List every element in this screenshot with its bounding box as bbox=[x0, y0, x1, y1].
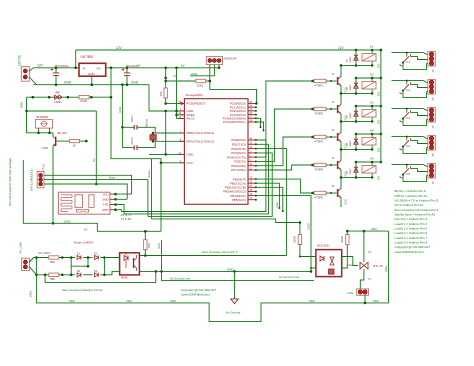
svg-text:12V: 12V bbox=[116, 46, 123, 50]
svg-text:Ac Ground Line: Ac Ground Line bbox=[170, 276, 190, 280]
svg-text:22PF2: 22PF2 bbox=[131, 137, 134, 145]
svg-text:12V: 12V bbox=[377, 147, 380, 152]
svg-text:GND: GND bbox=[187, 153, 195, 157]
svg-text:Ac Ground Line: Ac Ground Line bbox=[279, 275, 299, 279]
svg-text:GND: GND bbox=[157, 243, 161, 249]
svg-text:10K: 10K bbox=[159, 91, 163, 96]
svg-text:Load5 5 = Arduino Pin 8: Load5 5 = Arduino Pin 8 bbox=[395, 240, 428, 244]
svg-text:Reset: Reset bbox=[147, 170, 151, 178]
svg-text:K1: K1 bbox=[407, 60, 411, 64]
svg-text:RXD: RXD bbox=[103, 208, 109, 212]
svg-text:Zero Crossing Detector Circuit: Zero Crossing Detector Circuit bbox=[62, 288, 103, 292]
svg-text:VCC: VCC bbox=[187, 161, 194, 165]
svg-text:VI: VI bbox=[83, 66, 86, 70]
svg-text:DHT11 = Arduino Pin 10: DHT11 = Arduino Pin 10 bbox=[395, 194, 428, 198]
svg-text:J6: J6 bbox=[431, 181, 435, 184]
svg-text:Load2 2 = Arduino Pin 5: Load2 2 = Arduino Pin 5 bbox=[395, 226, 428, 230]
svg-text:180R: 180R bbox=[292, 236, 296, 243]
svg-text:10K1: 10K1 bbox=[197, 83, 204, 87]
svg-text:5V: 5V bbox=[84, 227, 88, 231]
svg-text:Copyright @ GO-3DFi iDT: Copyright @ GO-3DFi iDT bbox=[395, 245, 431, 249]
svg-text:12V: 12V bbox=[377, 119, 380, 124]
svg-text:J2: J2 bbox=[431, 69, 435, 72]
svg-text:Data: Data bbox=[109, 176, 115, 180]
svg-text:Stanby Input = Arduino Pin A0: Stanby Input = Arduino Pin A0 bbox=[395, 213, 436, 217]
svg-text:J4: J4 bbox=[431, 125, 435, 128]
svg-text:GND: GND bbox=[227, 267, 233, 271]
svg-text:470R: 470R bbox=[80, 99, 87, 103]
svg-text:J3: J3 bbox=[431, 97, 435, 100]
svg-text:56K: 56K bbox=[50, 277, 55, 281]
svg-text:12V: 12V bbox=[377, 91, 380, 96]
svg-text:12V: 12V bbox=[338, 46, 345, 50]
svg-text:AC 230V: AC 230V bbox=[38, 251, 51, 255]
svg-text:230v: 230v bbox=[69, 299, 76, 303]
svg-text:470R5: 470R5 bbox=[315, 195, 324, 199]
svg-text:Atmega328p: Atmega328p bbox=[186, 93, 203, 97]
svg-text:Data: Data bbox=[276, 202, 279, 208]
svg-text:LED1: LED1 bbox=[55, 100, 63, 104]
svg-text:J5: J5 bbox=[431, 153, 435, 156]
svg-text:LM 7805: LM 7805 bbox=[81, 55, 94, 59]
svg-text:RX to Arduino Pin 12: RX to Arduino Pin 12 bbox=[395, 203, 424, 207]
svg-text:230v: 230v bbox=[126, 299, 133, 303]
svg-text:GND: GND bbox=[20, 102, 24, 108]
svg-text:1N4007: 1N4007 bbox=[350, 140, 352, 147]
svg-text:PB5(SCK): PB5(SCK) bbox=[232, 198, 246, 202]
svg-text:230v: 230v bbox=[384, 265, 388, 272]
svg-text:TX to RX: TX to RX bbox=[121, 217, 132, 221]
svg-text:5V: 5V bbox=[174, 74, 178, 78]
svg-text:GND: GND bbox=[64, 220, 70, 224]
svg-text:www.GSMFabrik.com: www.GSMFabrik.com bbox=[181, 292, 210, 296]
svg-text:1N4007: 1N4007 bbox=[350, 84, 352, 91]
svg-text:K5: K5 bbox=[407, 172, 411, 176]
svg-text:470R3: 470R3 bbox=[315, 139, 324, 143]
svg-text:AVCC: AVCC bbox=[187, 117, 196, 121]
svg-text:K4: K4 bbox=[407, 144, 411, 148]
svg-text:www.GSMFabrik.com: www.GSMFabrik.com bbox=[395, 250, 425, 254]
svg-text:BUZZER: BUZZER bbox=[37, 115, 49, 119]
svg-text:230v: 230v bbox=[170, 299, 177, 303]
svg-text:PB7(XTAL2/TOSC2): PB7(XTAL2/TOSC2) bbox=[187, 140, 215, 144]
svg-text:Load1 1 = Arduino Pin 4: Load1 1 = Arduino Pin 4 bbox=[395, 222, 428, 226]
svg-text:5V: 5V bbox=[181, 64, 185, 68]
svg-text:470R1: 470R1 bbox=[315, 83, 324, 87]
svg-text:GND: GND bbox=[118, 107, 122, 113]
svg-text:Buzzer = Arduino Pin 9: Buzzer = Arduino Pin 9 bbox=[395, 189, 426, 193]
svg-text:SENSOR: SENSOR bbox=[224, 56, 238, 60]
svg-text:PC6(/RESET): PC6(/RESET) bbox=[187, 102, 206, 106]
svg-text:GND: GND bbox=[307, 223, 311, 229]
svg-text:GND: GND bbox=[64, 81, 72, 85]
svg-text:K3: K3 bbox=[370, 101, 374, 105]
svg-text:VCC: VCC bbox=[103, 192, 109, 196]
svg-text:DHT11 MODULE: DHT11 MODULE bbox=[30, 169, 34, 191]
svg-text:22PF1: 22PF1 bbox=[131, 114, 134, 122]
svg-text:1N4007: 1N4007 bbox=[350, 168, 352, 175]
svg-text:TXD: TXD bbox=[103, 203, 109, 207]
svg-text:1N4007: 1N4007 bbox=[350, 112, 352, 119]
svg-text:HC-05/06 = TX to Arduino Pin 1: HC-05/06 = TX to Arduino Pin 11 bbox=[395, 199, 439, 203]
svg-text:Diode 1N4007: Diode 1N4007 bbox=[74, 240, 94, 244]
svg-text:Fan Out = Arduino Pin 3: Fan Out = Arduino Pin 3 bbox=[395, 217, 428, 221]
svg-text:GND: GND bbox=[344, 199, 347, 205]
svg-text:GND: GND bbox=[131, 81, 139, 85]
svg-text:12V: 12V bbox=[377, 63, 380, 68]
svg-text:BC 547: BC 547 bbox=[58, 131, 68, 135]
svg-text:GND: GND bbox=[42, 146, 48, 150]
svg-text:12V DC: 12V DC bbox=[18, 54, 22, 66]
svg-text:56K: 56K bbox=[50, 260, 55, 264]
svg-text:230v: 230v bbox=[28, 290, 32, 297]
svg-text:4N25: 4N25 bbox=[121, 276, 128, 280]
svg-text:GND: GND bbox=[191, 72, 197, 76]
svg-text:1K: 1K bbox=[73, 144, 77, 148]
svg-text:K5: K5 bbox=[370, 157, 374, 161]
svg-text:12V: 12V bbox=[37, 64, 44, 68]
svg-text:Load3 3 = Arduino Pin 6: Load3 3 = Arduino Pin 6 bbox=[395, 231, 428, 235]
svg-text:Ac Ground: Ac Ground bbox=[226, 311, 241, 315]
svg-text:MOC3021: MOC3021 bbox=[317, 244, 330, 248]
svg-text:470R2: 470R2 bbox=[315, 111, 324, 115]
svg-text:10K: 10K bbox=[147, 243, 151, 248]
svg-text:FAN: FAN bbox=[348, 291, 354, 295]
svg-text:GND: GND bbox=[88, 72, 94, 76]
svg-text:K2: K2 bbox=[370, 73, 374, 77]
svg-text:Dot-matrix-watchE mAX (high Vo: Dot-matrix-watchE mAX (high Voltage) bbox=[8, 158, 12, 206]
svg-text:AC_LINE: AC_LINE bbox=[18, 242, 22, 254]
svg-text:K3: K3 bbox=[407, 116, 411, 120]
svg-text:230v: 230v bbox=[371, 227, 378, 231]
svg-text:K4: K4 bbox=[370, 129, 374, 133]
svg-text:230v: 230v bbox=[373, 299, 380, 303]
svg-text:Copyright @ GO-3DFi iDT: Copyright @ GO-3DFi iDT bbox=[181, 288, 216, 292]
svg-text:Zero Crossing Out to Pin 2: Zero Crossing Out to Pin 2 bbox=[202, 250, 238, 254]
svg-text:Load4 4 = Arduino Pin 7: Load4 4 = Arduino Pin 7 bbox=[395, 236, 428, 240]
svg-text:16MHz2: 16MHz2 bbox=[146, 118, 149, 128]
svg-text:1N4007: 1N4007 bbox=[350, 56, 352, 63]
svg-text:Gate: Gate bbox=[347, 263, 353, 267]
svg-text:230v: 230v bbox=[309, 299, 316, 303]
svg-text:12V: 12V bbox=[377, 175, 380, 180]
svg-text:K1: K1 bbox=[370, 45, 374, 49]
svg-text:5V: 5V bbox=[92, 158, 96, 162]
svg-text:470R4: 470R4 bbox=[315, 167, 324, 171]
svg-text:GND: GND bbox=[102, 198, 108, 202]
svg-text:360R: 360R bbox=[340, 236, 344, 243]
svg-text:PC5(ADC5/SCL): PC5(ADC5/SCL) bbox=[223, 120, 246, 124]
svg-text:PD7(AIN1): PD7(AIN1) bbox=[231, 168, 246, 172]
svg-text:BT1 36: BT1 36 bbox=[373, 264, 383, 268]
svg-text:K2: K2 bbox=[407, 88, 411, 92]
svg-text:Zero Crossing Out Arduino Pin: Zero Crossing Out Arduino Pin 2 bbox=[395, 208, 439, 212]
svg-text:PB6(XTAL1/TOSC1): PB6(XTAL1/TOSC1) bbox=[187, 131, 215, 135]
